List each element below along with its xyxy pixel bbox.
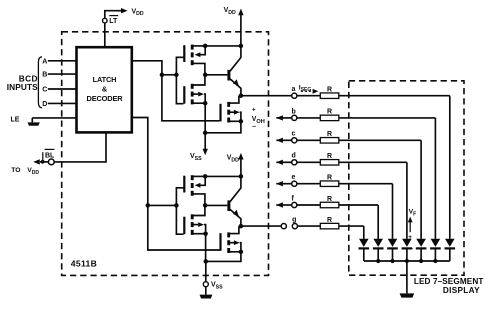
node N4 source dot — [239, 250, 244, 255]
LT input terminal circle — [103, 18, 108, 23]
LED D7 (segment a) — [445, 239, 456, 261]
junction dot rail x=421.1 — [419, 259, 423, 263]
P1 drain stub — [194, 63, 205, 74]
transistor N3 (NMOS driver2) — [183, 214, 193, 235]
LED D1 (segment g) — [359, 239, 370, 261]
svg-text:VF: VF — [409, 209, 417, 218]
node output a dot — [239, 93, 244, 98]
svg-text:R: R — [327, 196, 332, 203]
P2 drain stub — [194, 194, 205, 206]
BL tie stub — [42, 152, 44, 162]
wire input B — [48, 73, 76, 75]
Q2 base wire — [205, 204, 227, 206]
latch/decoder block U1 — [77, 47, 132, 132]
svg-text:VSS: VSS — [211, 282, 223, 291]
N3 drain stub — [194, 205, 205, 215]
svg-text:d: d — [292, 153, 296, 160]
VDD rail driver1 — [205, 45, 241, 47]
LED D5 (segment c) — [416, 239, 427, 261]
svg-text:VSS: VSS — [190, 153, 202, 162]
N1 body arrow — [194, 93, 199, 95]
VSS supply arrow driver1 — [203, 149, 208, 156]
node inverter2 output dot — [203, 203, 208, 208]
driver2 gate rail wire — [176, 188, 183, 234]
wire N2 source to VSS — [205, 121, 241, 133]
wire rail to ground — [406, 261, 408, 293]
svg-text:VDD: VDD — [227, 155, 239, 164]
junction dot rail x=378.2 — [376, 259, 380, 263]
LED common cathode rail — [364, 260, 450, 262]
Q2 emitter — [230, 209, 241, 226]
P2 source stub to VDD rail — [194, 175, 206, 177]
wire input D — [48, 102, 76, 104]
driver1 gate rail wire — [176, 57, 183, 103]
segment line c — [276, 131, 421, 239]
LED D6 (segment b) — [430, 239, 441, 261]
LE tie-low stub — [31, 118, 33, 123]
junction dot BL — [41, 160, 45, 164]
N2 body arrow — [230, 111, 234, 113]
transistor Q2 (NPN) base bar — [227, 200, 230, 211]
ground symbol display — [400, 293, 415, 297]
wire driver2 input — [148, 204, 177, 206]
segment line b — [276, 108, 435, 239]
wire VSS circle to ground — [205, 287, 207, 295]
svg-text:LT: LT — [109, 18, 118, 25]
N2 drain stub — [230, 96, 239, 103]
svg-text:b: b — [292, 108, 296, 115]
svg-text:R: R — [327, 153, 332, 160]
IC 4511B dashed outline box — [62, 32, 269, 276]
wire driver1 input — [162, 74, 177, 76]
LED D4 (segment d) — [402, 239, 413, 261]
VSS terminal circle — [203, 282, 208, 287]
transistor P2 (PMOS driver2) — [183, 175, 193, 196]
node driver1 input dot A — [160, 73, 165, 78]
Q2 collector — [230, 176, 241, 201]
svg-text:VDD: VDD — [27, 167, 39, 176]
svg-text:4511B: 4511B — [71, 258, 97, 268]
LED D2 (segment f) — [373, 239, 384, 261]
svg-text:f: f — [292, 195, 295, 202]
node N2 source dot — [239, 119, 244, 124]
Q1 collector — [230, 46, 241, 71]
ground bar at LE — [28, 122, 40, 125]
svg-text:&: & — [102, 84, 108, 93]
svg-text:−: − — [252, 124, 256, 131]
wire LT into latch — [104, 23, 106, 47]
segment line d — [276, 153, 407, 239]
segment line a — [241, 86, 450, 239]
N4 drain stub — [230, 226, 239, 234]
transistor N2 (output NMOS driver1) — [227, 102, 230, 123]
N4 body arrow — [230, 242, 234, 244]
N1 source stub — [194, 102, 206, 104]
output NMOS N4 gate bar — [219, 233, 221, 251]
N4 source stub — [230, 251, 241, 253]
junction dot rail x=392.5 — [390, 259, 394, 263]
input bracket — [38, 57, 42, 108]
Q1 emitter — [230, 79, 241, 96]
svg-text:C: C — [42, 87, 47, 94]
junction dot rail x=435.4 — [433, 259, 437, 263]
P2 body arrow — [200, 176, 206, 185]
svg-text:+: + — [252, 106, 256, 113]
N2 source stub — [230, 120, 241, 122]
svg-text:R: R — [327, 175, 332, 182]
wire BL from latch bottom — [54, 134, 106, 162]
svg-text:R: R — [327, 217, 332, 224]
wire LE — [32, 117, 75, 119]
svg-text:g: g — [292, 217, 296, 224]
VDD supply arrow driver1 — [240, 13, 242, 46]
svg-text:c: c — [292, 131, 296, 138]
node inverter1 output dot — [203, 73, 208, 78]
transistor N1 (NMOS driver1) — [183, 84, 193, 105]
svg-text:R: R — [327, 131, 332, 138]
svg-text:LE: LE — [11, 116, 20, 123]
LED display dashed outline box — [349, 81, 464, 275]
svg-text:LED 7–SEGMENT: LED 7–SEGMENT — [414, 277, 484, 286]
BL terminal circle — [48, 159, 54, 165]
ISEG dashed arrow — [301, 90, 314, 92]
transistor P1 (PMOS driver1) — [183, 45, 193, 66]
node driver1 gate rail dot — [174, 73, 179, 78]
svg-text:a: a — [292, 86, 296, 93]
svg-text:BL: BL — [45, 152, 55, 159]
P1 body arrow — [200, 46, 206, 55]
VDD rail driver2 — [205, 175, 241, 177]
svg-text:VDD: VDD — [132, 8, 144, 17]
segment line g — [241, 217, 364, 239]
ground symbol VSS — [200, 295, 213, 299]
VDD supply arrow driver2 — [240, 157, 242, 176]
segment line e — [276, 174, 392, 239]
svg-text:D: D — [42, 101, 47, 108]
N3 source stub — [194, 233, 206, 235]
svg-text:R: R — [327, 109, 332, 116]
wire input C — [48, 88, 76, 90]
svg-text:R: R — [327, 87, 332, 94]
wire input A — [48, 60, 76, 62]
transistor Q1 (NPN) base bar — [227, 70, 230, 81]
svg-text:A: A — [42, 58, 47, 65]
N1 drain stub — [194, 75, 205, 85]
svg-text:DISPLAY: DISPLAY — [443, 286, 480, 295]
wire LT circle to VDD arrow — [105, 11, 122, 19]
junction dot rail x=406.9 — [405, 259, 409, 263]
svg-text:−: − — [409, 246, 413, 253]
node driver2 gate rail dot — [174, 203, 179, 208]
wire N4 source to VSS — [206, 252, 241, 262]
svg-text:INPUTS: INPUTS — [7, 82, 38, 92]
svg-text:LATCH: LATCH — [93, 75, 117, 84]
node driver2 input dot — [146, 203, 151, 208]
Q1 base wire — [205, 74, 227, 76]
transistor N4 (output NMOS driver2) — [227, 232, 230, 253]
output NMOS N2 gate bar — [219, 104, 221, 122]
VSS stem driver2 — [205, 234, 207, 262]
VF arrow — [409, 221, 411, 233]
wire latch output 1 — [133, 61, 220, 121]
svg-text:VDD: VDD — [224, 7, 236, 16]
svg-text:e: e — [292, 174, 296, 181]
wire VSS to terminal — [205, 261, 207, 281]
VSS stem driver1 — [204, 103, 206, 150]
wire BL circle to junction — [40, 161, 48, 163]
segment line f — [276, 195, 378, 238]
svg-text:TO: TO — [11, 167, 20, 174]
node output g dot — [239, 224, 244, 229]
LED D3 (segment e) — [387, 239, 398, 261]
N3 body arrow — [194, 224, 199, 226]
arrow to VDD (lamp test tie-high) — [121, 8, 128, 13]
svg-text:B: B — [42, 72, 47, 79]
svg-text:+: + — [408, 234, 412, 241]
arrow to VDD (blanking tie-high) — [33, 159, 40, 164]
svg-text:DECODER: DECODER — [87, 94, 124, 103]
P1 source stub to VDD rail — [194, 45, 206, 47]
wire latch output 2 — [133, 118, 220, 251]
